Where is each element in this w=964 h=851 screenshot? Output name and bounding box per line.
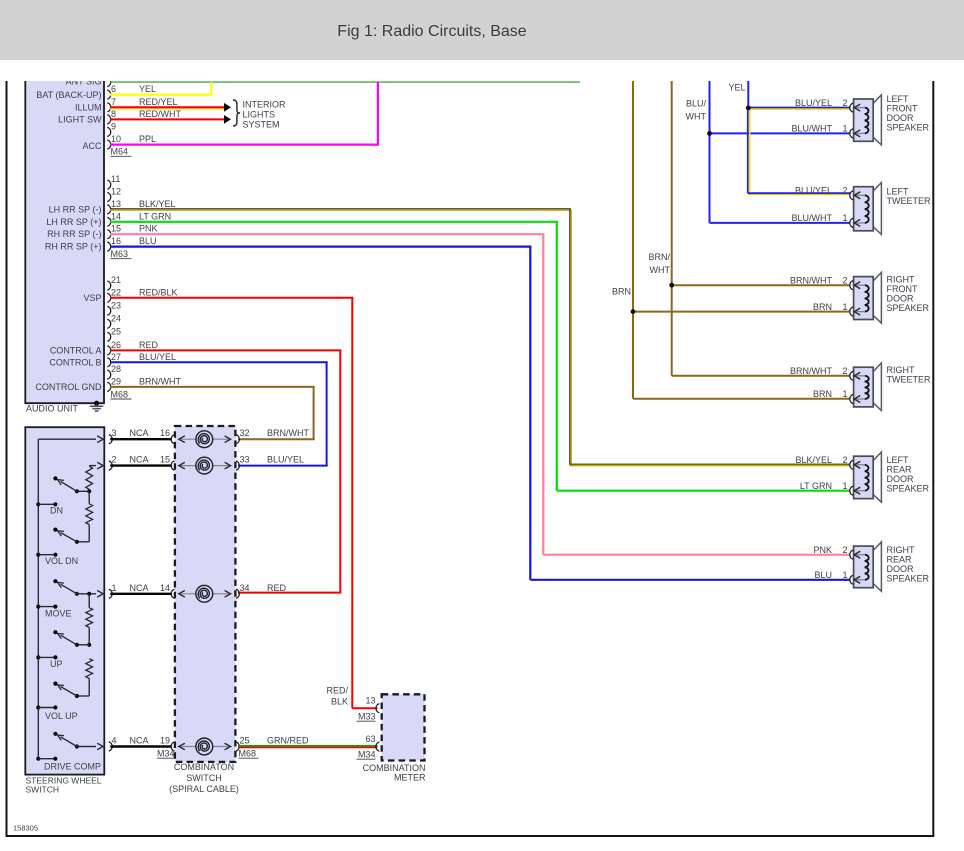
svg-text:2: 2	[842, 366, 847, 376]
connector label M34 (meter)	[357, 750, 376, 760]
svg-text:24: 24	[111, 313, 121, 323]
resistor R2	[88, 491, 90, 504]
label RIGHT TWEETER	[887, 365, 931, 385]
switch MOVE blade to pin 1	[53, 579, 96, 596]
svg-text:25: 25	[111, 326, 121, 336]
pin 25 bracket	[107, 332, 110, 341]
svg-text:LEFT: LEFT	[887, 94, 910, 104]
label LEFT FRONT DOOR SPEAKER	[887, 94, 930, 133]
speaker LEFT TWEETER	[854, 183, 882, 235]
value label RED/BLK at meter	[326, 686, 348, 707]
spiral cable coil segment pin 19	[179, 746, 231, 748]
ground G1 at audio unit	[90, 401, 103, 411]
bracket pin 2 of RIGHT TWEETER	[850, 371, 853, 380]
pin 24 bracket	[107, 319, 110, 328]
connector label M34 (spiral cable left)	[157, 749, 177, 759]
wire R4 to VOL UP blade	[77, 678, 89, 696]
bracket pin 2 of RIGHT REAR DOOR SPEAKER	[850, 550, 853, 559]
svg-text:BRN/WHT: BRN/WHT	[267, 428, 309, 438]
svg-text:BLU/YEL: BLU/YEL	[795, 186, 832, 196]
svg-text:2: 2	[842, 545, 847, 555]
svg-text:MOVE: MOVE	[45, 608, 72, 618]
pin 9 bracket	[107, 127, 110, 136]
pin 21 bracket	[107, 281, 110, 290]
svg-text:LH RR SP (+): LH RR SP (+)	[46, 217, 101, 227]
svg-text:RED/YEL: RED/YEL	[139, 97, 178, 107]
svg-text:16: 16	[111, 236, 121, 246]
svg-text:RH RR SP (-): RH RR SP (-)	[47, 229, 101, 239]
svg-text:15: 15	[111, 224, 121, 234]
wire R2 to VOL DN blade	[77, 525, 89, 542]
connector label M64	[111, 147, 132, 157]
spiral symbol pin 19	[196, 738, 213, 755]
svg-text:3: 3	[112, 428, 117, 438]
spiral cable arrow right pin 19	[225, 743, 231, 750]
wire NCA pin 4 to spiral cable pin 19	[110, 745, 172, 747]
svg-text:UP: UP	[50, 659, 63, 669]
wire YEL pin 6	[110, 82, 213, 95]
pin 15 bracket	[107, 230, 110, 239]
svg-text:PNK: PNK	[139, 224, 158, 234]
node BLU/WHT junction	[707, 131, 712, 136]
arrow to interior lights (pin 7)	[224, 103, 231, 112]
svg-text:33: 33	[240, 455, 250, 465]
svg-text:25: 25	[240, 736, 250, 746]
pin 4 bracket at steering box	[109, 742, 112, 751]
svg-text:RIGHT: RIGHT	[887, 275, 916, 285]
meter entry bracket pin 13	[376, 704, 379, 713]
pin 22 bracket	[107, 293, 110, 302]
svg-text:BLU/WHT: BLU/WHT	[792, 213, 833, 223]
svg-text:COMBINATION: COMBINATION	[363, 763, 426, 773]
svg-text:INTERIOR: INTERIOR	[243, 100, 287, 110]
svg-text:BRN/: BRN/	[648, 252, 670, 262]
node BRN/WHT junction	[669, 283, 674, 288]
bracket pin 2 of LEFT TWEETER	[850, 191, 853, 200]
svg-text:CONTROL GND: CONTROL GND	[35, 382, 102, 392]
switch DRIVE COMP common terminal	[36, 757, 57, 761]
svg-text:2: 2	[842, 98, 847, 108]
meter entry bracket pin 63	[376, 742, 379, 751]
svg-text:M33: M33	[358, 712, 376, 722]
svg-text:M64: M64	[111, 147, 129, 157]
svg-text:1: 1	[112, 583, 117, 593]
svg-text:DOOR: DOOR	[887, 113, 915, 123]
connector label M63	[111, 249, 132, 259]
spiral cable arrow right pin 15	[225, 462, 231, 469]
svg-text:FRONT: FRONT	[887, 284, 918, 294]
svg-text:BRN: BRN	[813, 389, 832, 399]
label LEFT TWEETER	[887, 187, 931, 207]
svg-text:NCA: NCA	[129, 736, 148, 746]
steering box exit arrow pin 2	[89, 465, 96, 467]
svg-text:WHT: WHT	[686, 112, 707, 122]
svg-text:METER: METER	[394, 773, 426, 783]
svg-text:63: 63	[365, 734, 375, 744]
wire RED pin 26 (CONTROL A) to spiral cable pin 34	[110, 350, 341, 592]
wire BLU/YEL to left front door speaker pin 2	[748, 108, 850, 110]
switch common bus wire	[38, 439, 96, 759]
steering box exit arrow pin 4	[97, 743, 103, 750]
svg-text:10: 10	[111, 134, 121, 144]
bracket pin 1 of RIGHT REAR DOOR SPEAKER	[850, 575, 853, 584]
frame bottom border	[6, 835, 935, 837]
resistor R3	[88, 594, 90, 608]
pin 14 bracket	[107, 217, 110, 226]
svg-text:1: 1	[842, 570, 847, 580]
steering box exit arrow pin 1	[97, 591, 103, 598]
svg-text:158305: 158305	[13, 824, 38, 833]
label RIGHT FRONT DOOR SPEAKER	[887, 275, 930, 314]
svg-text:2: 2	[112, 455, 117, 465]
svg-text:Fig 1: Radio Circuits, Base: Fig 1: Radio Circuits, Base	[337, 23, 527, 40]
label INTERIOR LIGHTS SYSTEM	[243, 100, 287, 130]
steering wheel switch box	[25, 427, 104, 774]
connector label M68 (spiral cable right)	[239, 749, 259, 759]
svg-text:RIGHT: RIGHT	[887, 545, 916, 555]
speaker LEFT REAR DOOR SPEAKER	[854, 452, 882, 502]
wire GRN/RED spiral cable pin 25 to combination meter pin 63	[238, 746, 378, 748]
wire PNK pin 15 to right rear speaker pin 2	[110, 234, 850, 555]
wire NCA pin 2 to spiral cable pin 15	[110, 464, 172, 466]
svg-text:ACC: ACC	[82, 141, 102, 151]
wire BLU pin 16 to right rear speaker pin 1	[110, 247, 850, 580]
speaker LEFT FRONT DOOR SPEAKER	[854, 95, 882, 145]
svg-text:26: 26	[111, 340, 121, 350]
svg-text:2: 2	[842, 186, 847, 196]
header bar	[0, 0, 964, 60]
wire BRN to right tweeter pin 1	[633, 398, 850, 400]
bracket pin 1 of LEFT TWEETER	[850, 218, 853, 227]
spiral cable entry bracket pin 19	[171, 742, 174, 751]
switch DN common terminal	[36, 502, 57, 506]
wire BRN vertical trunk	[632, 81, 634, 399]
steering box exit arrow pin 3	[97, 436, 103, 443]
svg-text:M68: M68	[239, 749, 257, 759]
spiral cable coil segment pin 16	[179, 438, 231, 440]
svg-text:32: 32	[240, 428, 250, 438]
switch DRIVE COMP blade to pin 4	[53, 732, 96, 749]
svg-text:BRN/WHT: BRN/WHT	[790, 275, 832, 285]
svg-text:BLU/: BLU/	[686, 99, 707, 109]
svg-text:BAT (BACK-UP): BAT (BACK-UP)	[36, 90, 101, 100]
svg-text:BLK/YEL: BLK/YEL	[795, 455, 832, 465]
svg-text:SWITCH: SWITCH	[186, 773, 222, 783]
svg-text:RED: RED	[139, 340, 159, 350]
spiral cable exit bracket	[236, 435, 239, 444]
connector label M33	[357, 712, 376, 722]
pin 6 bracket	[107, 90, 110, 99]
svg-text:NCA: NCA	[129, 428, 148, 438]
svg-text:19: 19	[160, 736, 170, 746]
svg-text:BLU: BLU	[814, 570, 832, 580]
audio unit U1 connector box M64/M63/M68	[25, 81, 104, 403]
wire RED/WHT pin 8 to interior lights	[110, 118, 224, 120]
label RIGHT REAR DOOR SPEAKER	[887, 545, 930, 584]
svg-text:TWEETER: TWEETER	[887, 375, 931, 385]
svg-text:9: 9	[111, 121, 116, 131]
combination meter box	[382, 694, 425, 760]
wire BRN/WHT to right front door speaker pin 2	[672, 284, 850, 286]
svg-text:DN: DN	[50, 506, 63, 516]
wire RED/BLK pin 22 (VSP) to combination meter pin 13	[110, 298, 378, 708]
svg-text:2: 2	[842, 455, 847, 465]
svg-text:BRN/WHT: BRN/WHT	[790, 366, 832, 376]
svg-text:8: 8	[111, 109, 116, 119]
svg-text:LT GRN: LT GRN	[800, 481, 832, 491]
pin 3 bracket at steering box	[109, 435, 112, 444]
svg-text:FRONT: FRONT	[887, 104, 918, 114]
pin 2 bracket at steering box	[109, 461, 112, 470]
svg-text:VOL DN: VOL DN	[45, 556, 78, 566]
wire BRN/WHT vertical trunk	[671, 81, 673, 376]
pin 23 bracket	[107, 306, 110, 315]
svg-text:ANT SIG: ANT SIG	[66, 76, 102, 86]
svg-text:34: 34	[240, 583, 250, 593]
bracket pin 1 of RIGHT TWEETER	[850, 394, 853, 403]
svg-text:TWEETER: TWEETER	[887, 196, 931, 206]
bracket pin 2 of RIGHT FRONT DOOR SPEAKER	[850, 281, 853, 290]
svg-text:YEL: YEL	[728, 83, 745, 93]
brace interior lights system	[233, 100, 240, 126]
wire BLU/WHT vertical trunk	[709, 81, 711, 223]
svg-text:21: 21	[111, 275, 121, 285]
svg-text:REAR: REAR	[887, 464, 913, 474]
pin 27 bracket	[107, 358, 110, 367]
svg-text:M68: M68	[111, 389, 129, 399]
svg-text:BRN: BRN	[813, 302, 832, 312]
bracket pin 2 of LEFT FRONT DOOR SPEAKER	[850, 103, 853, 112]
svg-text:SPEAKER: SPEAKER	[887, 123, 930, 133]
switch DN blade	[53, 476, 79, 493]
resistor R4	[86, 659, 93, 679]
combination switch spiral cable box	[175, 426, 236, 762]
svg-text:23: 23	[111, 300, 121, 310]
wire BRN/WHT pin 29 (CONTROL GND) to spiral cable pin 32	[110, 387, 315, 439]
svg-text:(SPIRAL CABLE): (SPIRAL CABLE)	[169, 784, 239, 794]
label STEERING WHEEL SWITCH	[26, 776, 102, 795]
svg-text:14: 14	[160, 583, 170, 593]
svg-text:M63: M63	[111, 249, 129, 259]
svg-text:YEL: YEL	[139, 84, 156, 94]
svg-text:RIGHT: RIGHT	[887, 365, 916, 375]
svg-text:DRIVE COMP: DRIVE COMP	[44, 761, 101, 771]
spiral symbol pin 16	[196, 431, 213, 448]
svg-text:SPEAKER: SPEAKER	[887, 483, 930, 493]
node BRN junction	[631, 309, 636, 314]
pin 1 bracket at steering box	[109, 589, 112, 598]
svg-text:13: 13	[111, 199, 121, 209]
svg-text:LIGHTS: LIGHTS	[243, 110, 276, 120]
svg-text:NCA: NCA	[129, 455, 148, 465]
svg-text:NCA: NCA	[129, 583, 148, 593]
wire NCA pin 1 to spiral cable pin 14	[110, 593, 172, 595]
svg-text:SPEAKER: SPEAKER	[887, 303, 930, 313]
svg-text:SPEAKER: SPEAKER	[887, 573, 930, 583]
bracket pin 1 of RIGHT FRONT DOOR SPEAKER	[850, 307, 853, 316]
svg-text:1: 1	[842, 389, 847, 399]
pin 26 bracket	[107, 346, 110, 355]
spiral cable arrow left pin 14	[179, 591, 185, 598]
svg-text:LH RR SP (-): LH RR SP (-)	[49, 204, 102, 214]
frame left border	[6, 81, 8, 836]
spiral cable exit bracket	[236, 461, 239, 470]
svg-text:13: 13	[365, 696, 375, 706]
pin 16 bracket	[107, 242, 110, 251]
svg-text:RED/: RED/	[326, 686, 348, 696]
node R1-DN junction	[77, 489, 91, 493]
bracket pin 1 of LEFT FRONT DOOR SPEAKER	[850, 129, 853, 138]
node MOVE junction	[87, 592, 91, 596]
pin 13 bracket	[107, 205, 110, 214]
resistor R1	[86, 466, 93, 489]
svg-text:BLU/WHT: BLU/WHT	[792, 124, 833, 134]
wire BLU/WHT to left tweeter pin 1	[710, 222, 851, 224]
svg-text:BLK/YEL: BLK/YEL	[139, 199, 176, 209]
svg-text:COMBINATON: COMBINATON	[174, 762, 234, 772]
switch UP common terminal	[36, 655, 57, 659]
svg-text:RED/WHT: RED/WHT	[139, 109, 181, 119]
wire LT GRN pin 14 to left rear speaker pin 1	[110, 222, 850, 491]
svg-text:VSP: VSP	[83, 293, 101, 303]
switch VOL DN blade	[53, 528, 79, 544]
bracket pin 1 of LEFT REAR DOOR SPEAKER	[850, 486, 853, 495]
spiral cable entry bracket pin 15	[171, 461, 174, 470]
svg-text:12: 12	[111, 187, 121, 197]
svg-text:11: 11	[111, 174, 120, 184]
spiral cable arrow right pin 14	[225, 591, 231, 598]
spiral cable arrow left pin 16	[179, 436, 185, 443]
svg-text:28: 28	[111, 364, 121, 374]
speaker RIGHT TWEETER	[854, 363, 882, 411]
svg-text:WHT: WHT	[650, 265, 671, 275]
svg-text:15: 15	[160, 455, 170, 465]
spiral cable entry bracket pin 16	[171, 435, 174, 444]
svg-text:PPL: PPL	[139, 134, 156, 144]
pin bracket 5 (clipped)	[107, 78, 110, 87]
spiral symbol pin 15	[196, 457, 213, 474]
speaker RIGHT REAR DOOR SPEAKER	[854, 542, 882, 591]
svg-text:REAR: REAR	[887, 554, 913, 564]
label BLU/WHT trunk	[686, 99, 707, 122]
svg-text:LEFT: LEFT	[887, 187, 910, 197]
svg-text:BLU/YEL: BLU/YEL	[267, 455, 304, 465]
svg-text:GRN/RED: GRN/RED	[267, 736, 309, 746]
svg-text:LIGHT SW: LIGHT SW	[58, 114, 102, 124]
svg-text:VOL UP: VOL UP	[45, 711, 78, 721]
svg-text:6: 6	[111, 84, 116, 94]
spiral cable exit bracket	[236, 742, 239, 751]
spiral cable arrow right pin 16	[225, 436, 231, 443]
bracket pin 2 of LEFT REAR DOOR SPEAKER	[850, 460, 853, 469]
speaker RIGHT FRONT DOOR SPEAKER	[854, 272, 882, 323]
svg-text:22: 22	[111, 287, 121, 297]
spiral cable arrow left pin 15	[179, 462, 185, 469]
svg-text:1: 1	[842, 124, 847, 134]
svg-text:4: 4	[112, 736, 117, 746]
wire BLU/YEL down to left tweeter pin 2	[748, 108, 850, 195]
svg-text:BRN/WHT: BRN/WHT	[139, 376, 181, 386]
svg-text:16: 16	[160, 428, 170, 438]
svg-text:SWITCH: SWITCH	[26, 785, 60, 795]
wire BRN to right front door speaker pin 1	[633, 311, 850, 313]
spiral symbol pin 14	[196, 585, 213, 602]
svg-text:M34: M34	[358, 750, 376, 760]
pin 28 bracket	[107, 370, 110, 379]
label ANT SIG (clipped at top)	[66, 76, 102, 86]
svg-text:27: 27	[111, 352, 121, 362]
svg-text:LEFT: LEFT	[887, 455, 910, 465]
svg-text:14: 14	[111, 211, 121, 221]
switch VOL UP common terminal	[36, 705, 57, 709]
wire RED/YEL pin 7 to interior lights	[110, 107, 224, 109]
svg-text:BLU: BLU	[139, 236, 157, 246]
switch MOVE common terminal	[36, 605, 57, 609]
wire BLU/WHT to left front door speaker pin 1	[710, 132, 851, 134]
pin 12 bracket	[107, 192, 110, 201]
svg-text:RED/BLK: RED/BLK	[139, 287, 178, 297]
label LEFT REAR DOOR SPEAKER	[887, 455, 930, 494]
switch VOL UP blade	[53, 682, 79, 699]
svg-text:BRN: BRN	[612, 286, 631, 296]
wire NCA pin 3 to spiral cable pin 16	[110, 438, 172, 440]
caption COMBINATION METER	[363, 763, 426, 783]
node R3-UP junction	[77, 627, 91, 647]
svg-text:PNK: PNK	[813, 545, 832, 555]
wire BLU/YEL pin 27 (CONTROL B) to spiral cable pin 33	[110, 362, 328, 465]
spiral cable arrow left pin 19	[179, 743, 185, 750]
spiral cable coil segment pin 15	[179, 465, 231, 467]
svg-text:SYSTEM: SYSTEM	[243, 120, 280, 130]
svg-text:AUDIO UNIT: AUDIO UNIT	[26, 404, 79, 414]
node BLU/YEL junction	[746, 106, 751, 111]
svg-text:1: 1	[842, 481, 847, 491]
switch UP blade	[53, 630, 79, 647]
svg-text:LT GRN: LT GRN	[139, 211, 171, 221]
svg-text:BLU/YEL: BLU/YEL	[139, 352, 176, 362]
svg-text:CONTROL A: CONTROL A	[50, 345, 102, 355]
pin 10 bracket	[107, 140, 110, 149]
caption COMBINATON SWITCH (SPIRAL CABLE)	[169, 762, 239, 794]
svg-text:M34: M34	[157, 749, 175, 759]
spiral cable coil segment pin 14	[179, 593, 231, 595]
svg-text:1: 1	[842, 213, 847, 223]
connector label M68 (audio unit)	[111, 389, 132, 399]
wire PPL pin 10 (ACC)	[110, 82, 379, 145]
wire BRN/WHT to right tweeter pin 2	[672, 375, 850, 377]
spiral cable entry bracket pin 14	[171, 589, 174, 598]
svg-text:DOOR: DOOR	[887, 474, 915, 484]
svg-text:1: 1	[842, 302, 847, 312]
pin 7 bracket	[107, 103, 110, 112]
pin 11 bracket	[107, 180, 110, 189]
arrow to interior lights (pin 8)	[224, 115, 231, 124]
svg-text:CONTROL B: CONTROL B	[49, 357, 101, 367]
spiral cable exit bracket	[236, 589, 239, 598]
wire BLK/YEL pin 13 to left rear speaker pin 2	[110, 209, 850, 466]
svg-text:RED: RED	[267, 583, 287, 593]
svg-text:DOOR: DOOR	[887, 564, 915, 574]
svg-text:DOOR: DOOR	[887, 294, 915, 304]
pin 8 bracket	[107, 115, 110, 124]
pin 29 bracket	[107, 382, 110, 391]
svg-text:7: 7	[111, 97, 116, 107]
switch VOL DN common terminal	[36, 553, 57, 557]
svg-text:BLK: BLK	[331, 697, 348, 707]
wire ANT SIG GRN (pin 5)	[110, 81, 580, 83]
svg-text:RH RR SP (+): RH RR SP (+)	[45, 242, 102, 252]
frame right border	[932, 81, 934, 836]
